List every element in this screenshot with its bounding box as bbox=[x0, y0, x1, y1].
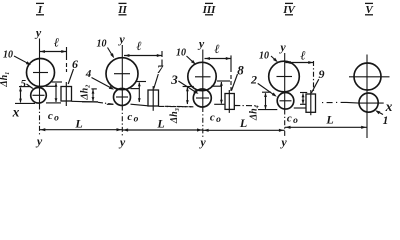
node y top, stand I bbox=[34, 26, 42, 40]
bearing block 7, stand II bbox=[148, 90, 159, 106]
label 9 with leader bbox=[311, 67, 324, 93]
svg-text:4: 4 bbox=[85, 68, 92, 80]
svg-text:9: 9 bbox=[319, 67, 325, 81]
svg-text:c: c bbox=[127, 111, 132, 123]
roll 4 (bottom roll), stand II bbox=[114, 89, 131, 106]
svg-text:Δh₃: Δh₃ bbox=[169, 108, 180, 124]
stand number IV bbox=[282, 3, 296, 16]
svg-text:ℓ: ℓ bbox=[214, 42, 219, 56]
wire y-axis stand II bbox=[121, 45, 123, 137]
svg-text:L: L bbox=[156, 117, 164, 131]
svg-text:c: c bbox=[48, 110, 53, 122]
node y top, stand II bbox=[117, 32, 125, 46]
svg-text:8: 8 bbox=[237, 63, 244, 78]
node y top, stand IV bbox=[278, 40, 286, 54]
roll 1 (bottom roll), stand V bbox=[359, 93, 378, 112]
pass line III to IV bbox=[234, 106, 277, 110]
svg-text:3: 3 bbox=[170, 72, 178, 87]
stand number II bbox=[117, 3, 127, 16]
dimension Δh1, stand I bbox=[15, 87, 35, 104]
center tick roll 3 stand III bbox=[196, 97, 209, 99]
dimension Δh3, stand III bbox=[183, 87, 194, 105]
pass line at stand II bbox=[107, 104, 148, 106]
label L, stands IV-V bbox=[325, 113, 333, 127]
svg-text:y: y bbox=[278, 40, 286, 54]
svg-text:x: x bbox=[12, 105, 20, 120]
label l, stand IV bbox=[300, 49, 305, 63]
svg-text:Δh₂: Δh₂ bbox=[80, 84, 91, 100]
svg-text:L: L bbox=[74, 117, 82, 131]
bearing block 6, stand I bbox=[61, 87, 72, 102]
bearing block 8, stand III bbox=[225, 94, 234, 110]
dimension Δh4, stand IV bbox=[262, 92, 271, 109]
label 10 with leader, stand II bbox=[97, 39, 115, 59]
label c0, stand I bbox=[48, 110, 59, 124]
svg-text:y: y bbox=[197, 37, 205, 51]
svg-text:ℓ: ℓ bbox=[300, 49, 305, 63]
roll 2 (bottom roll), stand IV bbox=[277, 93, 294, 110]
entry thickness dimension, stand II bbox=[136, 82, 147, 103]
dimension L, stands II-III bbox=[122, 128, 203, 131]
svg-text:x: x bbox=[385, 99, 393, 114]
node y top, stand III bbox=[197, 37, 205, 51]
label 10 with leader, stand I bbox=[3, 50, 31, 66]
label l, stand I bbox=[54, 36, 59, 50]
svg-text:o: o bbox=[293, 116, 298, 126]
label L, stands II-III bbox=[156, 117, 164, 131]
label l, stand II bbox=[136, 39, 141, 53]
label 3 with leader, stand III bbox=[170, 72, 198, 94]
label L, stands I-II bbox=[74, 117, 82, 131]
label 10 with leader, stand III bbox=[176, 47, 196, 64]
svg-text:y: y bbox=[118, 135, 126, 149]
x axis line, stand V bbox=[359, 102, 384, 104]
label L, stands III-IV bbox=[239, 116, 247, 130]
exit strip top line, stand II bbox=[130, 88, 139, 90]
label 7 with leader bbox=[154, 62, 164, 89]
center tick roll 4 stand II bbox=[116, 96, 128, 98]
svg-text:L: L bbox=[239, 116, 247, 130]
svg-text:Δh₄: Δh₄ bbox=[248, 105, 259, 121]
stand number I bbox=[36, 3, 44, 16]
label x, stand V bbox=[385, 99, 393, 114]
roll 10 (top roll), stand V bbox=[354, 63, 381, 90]
exit strip top line, stand III bbox=[211, 85, 221, 87]
svg-text:Δh₁: Δh₁ bbox=[0, 71, 10, 87]
label 4 with leader, stand II bbox=[85, 68, 114, 90]
pass line IV to V bbox=[322, 101, 359, 104]
label l, stand III bbox=[214, 42, 219, 56]
svg-text:2: 2 bbox=[250, 73, 257, 87]
svg-text:y: y bbox=[198, 135, 206, 149]
svg-text:y: y bbox=[279, 135, 287, 149]
label 6 with leader bbox=[68, 57, 78, 84]
svg-text:10: 10 bbox=[259, 51, 269, 62]
label c0, stand IV bbox=[287, 113, 298, 127]
label 2 with leader, stand IV bbox=[250, 73, 277, 97]
label Δh4 rotated, stand IV bbox=[248, 105, 259, 121]
svg-text:7: 7 bbox=[157, 62, 164, 76]
svg-text:o: o bbox=[54, 114, 59, 124]
stand number III bbox=[202, 3, 217, 16]
dimension L, stands I-II bbox=[40, 128, 123, 131]
svg-text:y: y bbox=[117, 32, 125, 46]
center tick roll 10 stand II bbox=[114, 73, 130, 75]
svg-text:o: o bbox=[134, 115, 139, 125]
label 8 with leader bbox=[232, 63, 245, 91]
label c0, stand III bbox=[210, 112, 221, 126]
label x axis, stand I bbox=[12, 105, 20, 120]
dimension l, stand III bbox=[205, 55, 232, 92]
dimension l, stand II bbox=[124, 51, 162, 68]
centerline of block 7 bbox=[152, 86, 154, 111]
svg-text:c: c bbox=[210, 112, 215, 124]
dimension l, stand I bbox=[40, 47, 67, 72]
node y bottom, stand II bbox=[118, 135, 126, 149]
roll 10 (top work roll), stand II bbox=[106, 58, 138, 90]
roll 5 (bottom roll), stand I bbox=[31, 88, 47, 104]
node y bottom, stand I bbox=[35, 134, 43, 148]
svg-text:1: 1 bbox=[383, 115, 389, 127]
svg-text:6: 6 bbox=[72, 57, 78, 71]
center tick roll 2 stand IV bbox=[280, 100, 292, 102]
center tick roll 10 stand IV bbox=[277, 76, 293, 78]
stand number V bbox=[365, 3, 374, 16]
pass line II to III bbox=[159, 105, 194, 107]
horizontal centerline top roll, stand V bbox=[349, 76, 390, 78]
label 5 with leader, stand I bbox=[21, 78, 33, 90]
label c0, stand II bbox=[127, 111, 138, 125]
bearing block 9, stand IV bbox=[306, 94, 316, 112]
center tick roll 10 stand III bbox=[195, 76, 211, 78]
svg-text:ℓ: ℓ bbox=[136, 39, 141, 53]
dimension L, stands III-IV bbox=[203, 129, 285, 132]
wire y-axis stand V bbox=[366, 55, 368, 139]
svg-text:5: 5 bbox=[21, 78, 27, 90]
centerline of block 6 bbox=[65, 82, 67, 106]
pass line at stand III bbox=[165, 105, 193, 108]
center tick roll 10 stand I bbox=[33, 72, 48, 74]
svg-text:y: y bbox=[35, 134, 43, 148]
roll 3 (bottom roll), stand III bbox=[193, 89, 211, 107]
label 1 with leader, stand V bbox=[375, 110, 388, 127]
svg-text:o: o bbox=[216, 115, 221, 125]
wire y-axis stand III bbox=[202, 50, 204, 138]
svg-text:L: L bbox=[325, 113, 333, 127]
center tick roll 5 stand I bbox=[33, 94, 45, 96]
svg-text:c: c bbox=[287, 113, 292, 125]
entry thickness dimension, stand I bbox=[46, 82, 62, 103]
label Δh1 rotated, stand I bbox=[0, 71, 10, 87]
pass line I to II bbox=[72, 101, 114, 104]
exit strip top line, stand I bbox=[46, 85, 57, 87]
label Δh3 rotated, stand III bbox=[169, 108, 180, 124]
roll 10 (top work roll), stand I bbox=[27, 59, 55, 87]
pass line right of roll, stand IV bbox=[294, 107, 306, 109]
centerline of block 9 bbox=[310, 90, 312, 115]
label 10 with leader, stand IV bbox=[259, 51, 278, 63]
dimension L, stands IV-V bbox=[285, 126, 367, 129]
wire y-axis stand IV bbox=[284, 53, 286, 137]
roll 10 (top work roll), stand III bbox=[188, 62, 216, 90]
svg-text:10: 10 bbox=[97, 39, 107, 50]
node y bottom, stand III bbox=[198, 135, 206, 149]
label Δh2 rotated, stand II bbox=[80, 84, 91, 100]
entry thickness dimension, stand III bbox=[214, 81, 230, 104]
svg-text:y: y bbox=[34, 26, 42, 40]
svg-text:ℓ: ℓ bbox=[54, 36, 59, 50]
dimension l, stand IV bbox=[285, 61, 313, 93]
dimension Δh2, stand II bbox=[82, 89, 98, 102]
exit thickness dimension, stand IV bbox=[300, 93, 307, 105]
centerline of block 8 bbox=[228, 90, 230, 113]
svg-text:10: 10 bbox=[3, 50, 13, 61]
wire y-axis stand I bbox=[39, 39, 41, 137]
svg-text:10: 10 bbox=[176, 47, 186, 58]
roll 10 (top work roll), stand IV bbox=[269, 61, 300, 92]
node y bottom, stand IV bbox=[279, 135, 287, 149]
